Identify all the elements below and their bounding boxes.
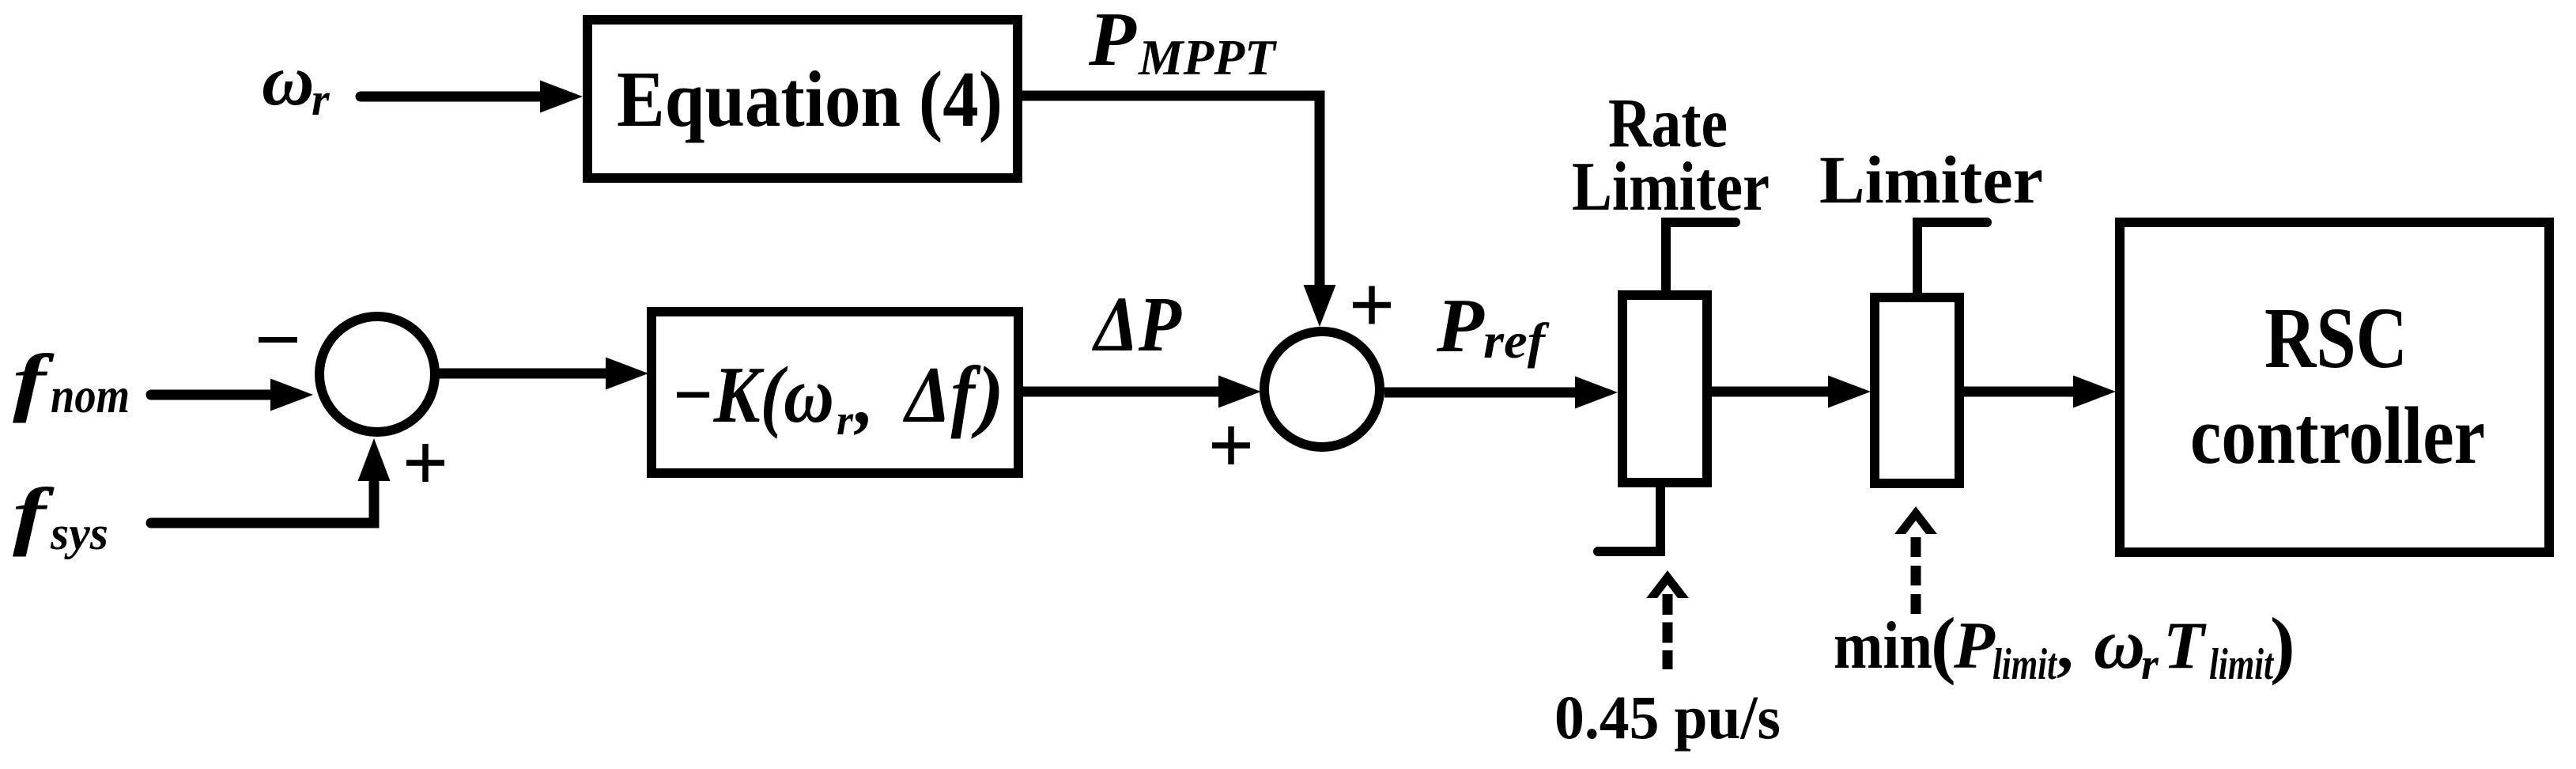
wire K block to summing junction 2 (1023, 376, 1261, 408)
limiter symbol (1875, 222, 1987, 483)
block RSC controller (2120, 222, 2549, 552)
rate limiter symbol (1598, 222, 1736, 551)
label min(P_limit, omega_r T_limit) (1834, 602, 2295, 689)
block -K(omega_r, delta f) (652, 312, 1018, 473)
sign minus at summing junction 1 (259, 337, 297, 343)
svg-text:r: r (2141, 640, 2159, 689)
svg-text:ref: ref (1483, 313, 1550, 369)
wire f_nom to summing junction 1 (151, 379, 313, 411)
dashed arrow min limit into limiter (1894, 506, 1937, 616)
svg-text:,: , (2057, 608, 2073, 683)
svg-text:T: T (2163, 608, 2207, 683)
wire limiter to RSC controller (1964, 376, 2116, 408)
svg-text:(: ( (1931, 602, 1956, 686)
sign plus at summing junction 2 top (1353, 286, 1391, 324)
svg-text:Equation (4): Equation (4) (617, 55, 1003, 143)
svg-text:P: P (1088, 0, 1137, 82)
svg-text:r: r (837, 396, 854, 444)
svg-text:Δf: Δf (902, 350, 981, 440)
wire f_sys to summing junction 1 (151, 438, 391, 523)
sign plus at summing junction 2 left (1212, 426, 1250, 464)
svg-text:): ) (2270, 602, 2295, 686)
wire omega_r to Equation(4) block (361, 81, 583, 113)
svg-text:ω: ω (2094, 605, 2145, 684)
svg-text:RSC: RSC (2264, 290, 2408, 386)
svg-text:limit: limit (1992, 640, 2057, 689)
label P_ref (1436, 283, 1550, 369)
wire P_MPPT from Equation(4) to summing junction 2 (1022, 96, 1336, 327)
svg-text:nom: nom (51, 367, 130, 423)
label f_nom (13, 339, 130, 423)
svg-text:0.45 pu/s: 0.45 pu/s (1554, 683, 1781, 752)
svg-text:min: min (1834, 608, 1932, 683)
svg-text:controller: controller (2190, 391, 2485, 481)
svg-text:limit: limit (2209, 640, 2274, 689)
wire summing junction 1 to K block (437, 358, 648, 390)
svg-text:ω: ω (262, 40, 315, 120)
input label omega_r (262, 40, 330, 125)
svg-text:ΔP: ΔP (1091, 280, 1181, 368)
sign plus at summing junction 1 (406, 444, 444, 482)
label P_MPPT (1088, 0, 1278, 85)
dashed arrow 0.45 pu/s into rate limiter (1646, 570, 1689, 669)
svg-text:Limiter: Limiter (1819, 142, 2043, 218)
svg-text:r: r (312, 74, 330, 125)
svg-text:P: P (1436, 283, 1485, 369)
summing junction 2 (1264, 331, 1380, 447)
wire summing junction 2 to rate limiter (1384, 377, 1618, 409)
svg-text:sys: sys (50, 507, 108, 559)
summing junction 1 (319, 316, 435, 432)
label Rate Limiter (1572, 85, 1770, 225)
svg-text:P: P (1953, 608, 1996, 683)
svg-text:Limiter: Limiter (1572, 149, 1770, 225)
label f_sys (13, 473, 108, 559)
svg-text:−K(ω: −K(ω (671, 350, 834, 440)
svg-text:,: , (853, 356, 874, 440)
block Equation (4) (587, 20, 1018, 178)
wire rate limiter to limiter (1712, 376, 1871, 408)
svg-text:MPPT: MPPT (1138, 30, 1278, 85)
